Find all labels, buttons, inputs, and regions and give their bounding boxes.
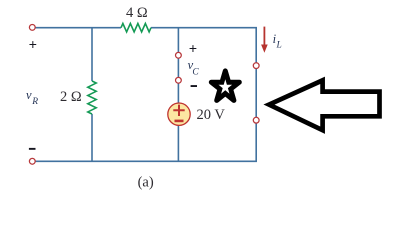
svg-text:C: C	[192, 68, 199, 78]
svg-text:(a): (a)	[138, 174, 154, 190]
svg-text:v: v	[26, 88, 32, 102]
svg-text:2 Ω: 2 Ω	[60, 89, 82, 105]
svg-text:+: +	[29, 36, 37, 52]
svg-text:4 Ω: 4 Ω	[126, 5, 148, 21]
svg-text:L: L	[276, 40, 282, 50]
svg-text:+: +	[189, 40, 197, 56]
svg-text:20 V: 20 V	[197, 107, 226, 123]
svg-text:R: R	[31, 97, 38, 107]
